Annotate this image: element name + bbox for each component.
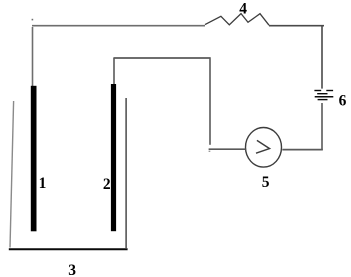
electrode 2 <box>111 84 116 231</box>
battery 6 top dashed plate <box>314 90 321 92</box>
meter U5 circle <box>246 128 282 168</box>
wire top horizontal to resistor <box>32 25 205 27</box>
svg-text:2: 2 <box>103 176 111 193</box>
svg-text:3: 3 <box>68 262 76 277</box>
svg-text:6: 6 <box>339 93 347 110</box>
wire meter left horizontal <box>209 148 246 150</box>
svg-text:4: 4 <box>239 0 247 17</box>
wire right vertical to battery top <box>321 26 323 89</box>
wire short vertical to electrode 2 <box>113 58 115 85</box>
beaker 3 right wall <box>125 98 127 248</box>
wire battery bottom to meter level <box>321 103 323 150</box>
svg-text:1: 1 <box>39 175 47 192</box>
svg-text:5: 5 <box>262 174 270 191</box>
resistor 4 zigzag <box>205 14 269 26</box>
wire meter right horizontal <box>282 149 323 151</box>
wire left vertical from electrode 1 up <box>32 27 34 86</box>
beaker 3 bottom <box>9 248 128 250</box>
wire resistor to top-right corner <box>269 25 324 27</box>
wire middle vertical down from electrode-2 loop <box>209 59 211 145</box>
wire stray dot below meter-left wire <box>209 151 211 152</box>
battery 6 short plate bottom <box>318 99 328 101</box>
wire second horizontal <box>113 57 210 59</box>
electrode 1 <box>31 86 37 232</box>
beaker 3 left wall <box>10 101 14 248</box>
meter arrow greater-than symbol <box>256 140 270 153</box>
battery 6 short plate <box>317 93 327 95</box>
battery 6 long plate <box>315 96 334 98</box>
wire stray dot above left corner <box>32 19 34 21</box>
